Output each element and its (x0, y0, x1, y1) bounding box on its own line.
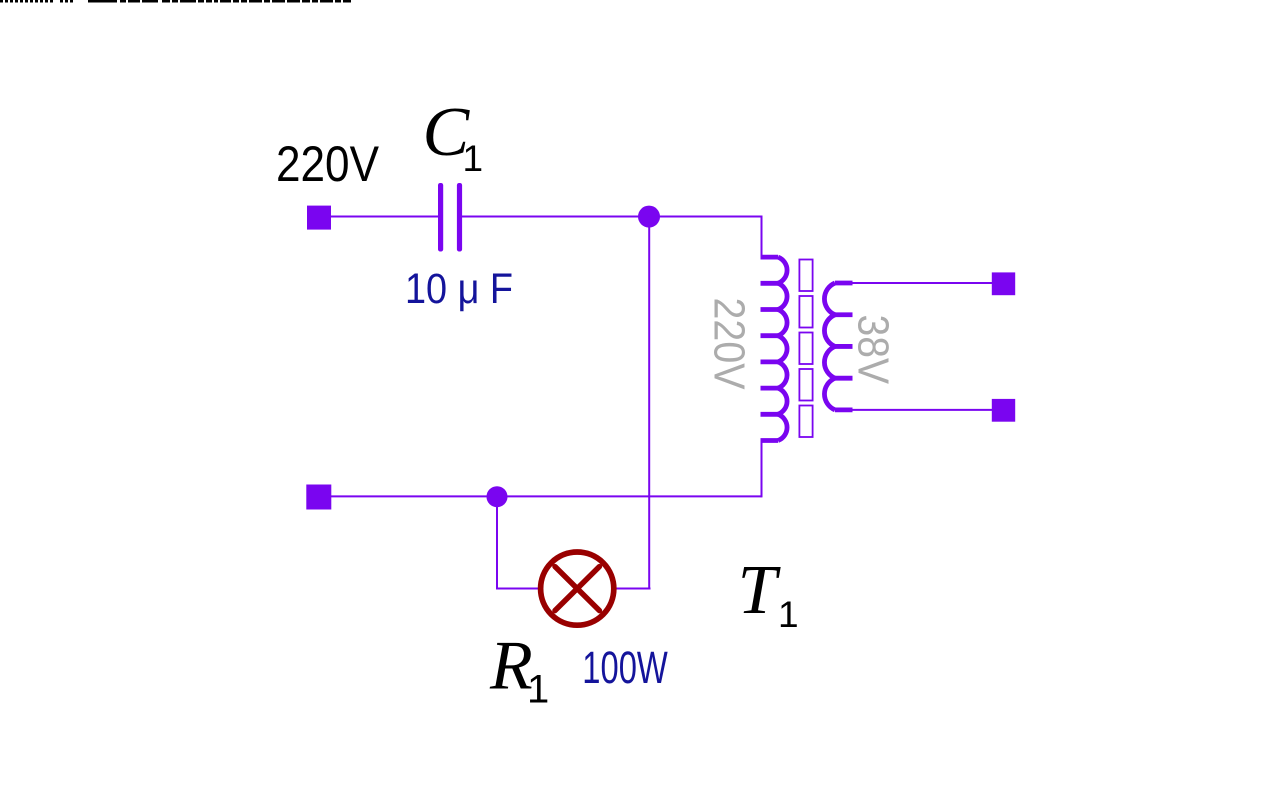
svg-text:10 μ F: 10 μ F (405, 265, 513, 313)
wire: top-left square to capacitor (331, 216, 438, 218)
wire: secondary bottom to right terminal (851, 409, 992, 411)
terminal square bottom-right (992, 399, 1015, 422)
wire: capacitor to junction to transformer top corner (462, 216, 762, 218)
svg-text:1: 1 (527, 668, 549, 712)
capacitor C1 (438, 183, 462, 252)
wire: transformer top corner down to primary coil (761, 216, 763, 259)
wire: lamp right to vertical (616, 588, 651, 590)
transformer core laminations (799, 260, 812, 438)
junction dot bottom (487, 486, 508, 507)
terminal square top-left (307, 206, 331, 230)
clipped title text strip (0, 0, 351, 3)
svg-text:1: 1 (463, 138, 484, 179)
junction dot top (638, 206, 660, 228)
svg-text:100W: 100W (582, 642, 668, 693)
lamp R1 cross (555, 567, 599, 611)
svg-text:1: 1 (778, 594, 799, 635)
transformer T1 secondary winding (824, 283, 852, 410)
terminal square bottom-left (306, 485, 331, 510)
wire: junction down to lamp (496, 497, 498, 590)
wire: secondary top to right terminal (851, 282, 992, 284)
wire: to lamp left (496, 588, 539, 590)
wire: bottom rail (331, 495, 762, 497)
svg-text:T: T (738, 552, 782, 629)
wire: vertical from top junction down to lamp level (648, 217, 650, 589)
lamp R1 circle (541, 552, 614, 625)
terminal square top-right (992, 272, 1015, 295)
transformer T1 primary winding (761, 257, 788, 440)
svg-text:220V: 220V (704, 298, 753, 391)
svg-text:38V: 38V (849, 315, 898, 385)
wire: primary coil bottom to bottom rail (761, 440, 763, 497)
svg-text:220V: 220V (276, 136, 380, 192)
